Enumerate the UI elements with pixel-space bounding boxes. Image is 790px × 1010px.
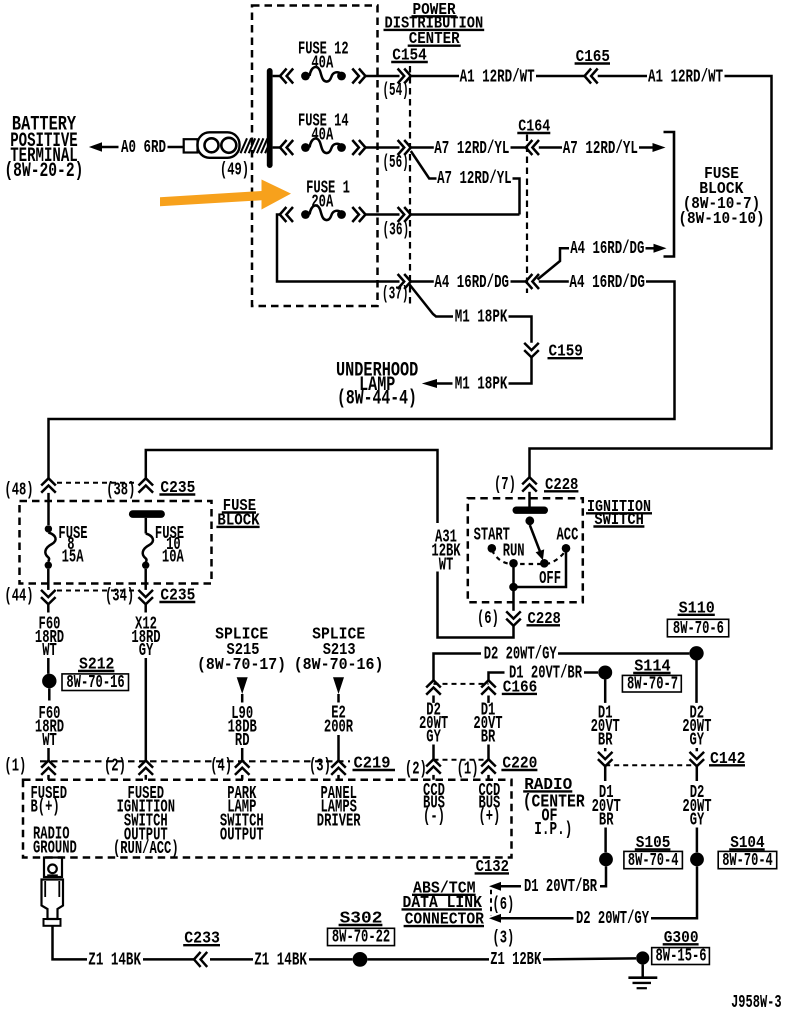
wire D1 20VT/BR to ABS xyxy=(600,866,606,886)
svg-text:(1): (1) xyxy=(457,760,479,780)
svg-text:(54): (54) xyxy=(383,81,409,101)
wire F60 18RD WT xyxy=(47,604,50,612)
switch output wires xyxy=(514,553,567,588)
svg-text:(56): (56) xyxy=(383,153,409,173)
svg-text:GY: GY xyxy=(690,731,705,751)
wire fuse12 to C154 xyxy=(366,75,400,78)
wire A31 lower run xyxy=(438,572,514,638)
wire D2 20WT/GY to ABS xyxy=(651,866,697,918)
svg-text:15A: 15A xyxy=(62,548,84,568)
svg-text:Z1 14BK: Z1 14BK xyxy=(254,950,307,970)
splice S114 xyxy=(598,666,612,680)
svg-text:WT: WT xyxy=(439,555,454,575)
wire D2 below C142 xyxy=(696,766,699,781)
svg-text:GROUND: GROUND xyxy=(33,838,77,858)
svg-text:(6): (6) xyxy=(477,609,499,629)
fuse F12 xyxy=(273,75,280,78)
svg-text:(3): (3) xyxy=(309,757,331,777)
svg-text:M1 18PK: M1 18PK xyxy=(455,308,508,328)
splice S213 arrow xyxy=(333,677,344,694)
svg-text:(8W-44-4): (8W-44-4) xyxy=(337,388,417,411)
ignition switch bus bar xyxy=(513,507,549,514)
svg-text:A0 6RD: A0 6RD xyxy=(121,138,166,158)
svg-text:BR: BR xyxy=(481,727,496,747)
svg-text:A7 12RD/YL: A7 12RD/YL xyxy=(437,169,512,189)
wire E2 200R xyxy=(337,694,340,703)
splice S110 xyxy=(689,646,703,660)
wire D2 20WT/GY xyxy=(434,654,482,681)
wire D2 from S110 down xyxy=(695,660,698,703)
fuse F10 xyxy=(145,518,148,534)
fuse block dashed box xyxy=(20,501,212,584)
fuse block bracket xyxy=(664,132,675,257)
battery feed bus bar xyxy=(267,68,273,168)
battery terminal connector (49) xyxy=(184,139,198,152)
connector C164 pin 2 xyxy=(526,274,539,289)
wire Z1 12BK xyxy=(367,958,489,961)
svg-text:J958W-3: J958W-3 xyxy=(731,993,782,1010)
svg-text:M1 18PK: M1 18PK xyxy=(455,375,508,395)
svg-text:A7 12RD/YL: A7 12RD/YL xyxy=(563,139,638,159)
svg-text:(8W-10-10): (8W-10-10) xyxy=(678,210,764,229)
splice S302 xyxy=(353,952,368,967)
svg-text:RD: RD xyxy=(235,731,250,751)
wire A31 upper run xyxy=(146,450,438,523)
svg-text:A7 12RD/YL: A7 12RD/YL xyxy=(434,139,509,159)
svg-text:(7): (7) xyxy=(494,475,516,495)
wire A4 16RD/DG xyxy=(411,280,434,283)
svg-text:RUN: RUN xyxy=(503,541,525,561)
wire M1 18PK to underhood lamp xyxy=(509,357,532,383)
switch contacts xyxy=(488,544,497,553)
C154 pin 36 xyxy=(398,207,411,222)
crimp hatching xyxy=(241,138,248,153)
arrow to battery terminal xyxy=(89,142,102,151)
splice S104 xyxy=(690,853,704,867)
radio pin stub wires xyxy=(47,775,50,780)
svg-text:40A: 40A xyxy=(311,53,333,73)
splice S215 arrow xyxy=(237,677,248,694)
svg-text:A4 16RD/DG: A4 16RD/DG xyxy=(570,239,644,259)
switch wiper xyxy=(525,516,534,525)
svg-text:A4 16RD/DG: A4 16RD/DG xyxy=(434,273,509,293)
svg-text:A1 12RD/WT: A1 12RD/WT xyxy=(460,67,535,87)
svg-text:8W-70-22: 8W-70-22 xyxy=(332,928,390,948)
svg-text:(3): (3) xyxy=(492,928,514,948)
svg-text:(8W-70-16): (8W-70-16) xyxy=(294,656,384,675)
svg-text:D2 20WT/GY: D2 20WT/GY xyxy=(576,909,649,929)
svg-text:200R: 200R xyxy=(324,717,353,737)
svg-text:(+): (+) xyxy=(478,807,500,827)
wire fuse14 to C154 xyxy=(366,146,400,149)
svg-text:20A: 20A xyxy=(311,192,333,212)
svg-text:(8W-20-2): (8W-20-2) xyxy=(4,160,83,183)
wire fuse1 output xyxy=(411,213,520,216)
wire D1 below C142 xyxy=(604,766,607,781)
svg-text:D2 20WT/GY: D2 20WT/GY xyxy=(484,645,557,665)
wire A1 12RD/WT to ignition switch xyxy=(598,75,647,78)
contact arc xyxy=(492,550,566,564)
fuse block bus bar xyxy=(129,510,165,518)
orange highlight arrow xyxy=(160,180,291,210)
svg-text:(2): (2) xyxy=(104,757,126,777)
svg-text:8W-70-4: 8W-70-4 xyxy=(628,851,679,871)
connector C235 upper xyxy=(41,478,56,492)
C154 pin 37 xyxy=(398,274,411,289)
svg-text:A1 12RD/WT: A1 12RD/WT xyxy=(648,67,723,87)
svg-text:OUTPUT: OUTPUT xyxy=(220,825,264,845)
wire fuse1 to C154 xyxy=(366,213,400,216)
svg-text:(49): (49) xyxy=(220,161,249,181)
wire D1 from S114 down xyxy=(604,680,607,703)
wire A4 to lower fuse block xyxy=(49,282,675,479)
ground G300 xyxy=(636,951,649,964)
svg-text:(2): (2) xyxy=(405,760,427,780)
svg-text:(6): (6) xyxy=(492,895,514,915)
svg-text:8W-70-16: 8W-70-16 xyxy=(66,673,124,693)
svg-text:(44): (44) xyxy=(4,587,33,607)
svg-text:WT: WT xyxy=(42,641,57,661)
connector C142 pin D1 xyxy=(598,752,613,766)
power distribution center dashed box xyxy=(252,6,378,307)
wire A7 12RD/YL xyxy=(411,146,434,149)
svg-text:GY: GY xyxy=(690,810,705,830)
fuse F8 xyxy=(47,493,50,525)
svg-text:BR: BR xyxy=(598,731,613,751)
splice S212 xyxy=(42,674,56,688)
svg-text:BR: BR xyxy=(599,810,614,830)
svg-text:(8W-70-17): (8W-70-17) xyxy=(197,656,286,675)
wire D1 20VT/BR xyxy=(489,673,505,681)
svg-text:I.P.): I.P.) xyxy=(534,820,572,840)
connector C142 pin D2 xyxy=(690,752,705,766)
connector C235 lower xyxy=(41,590,56,604)
connector C220 xyxy=(434,759,489,761)
wire L90 18DB RD xyxy=(241,694,244,703)
svg-text:DRIVER: DRIVER xyxy=(317,812,361,832)
svg-text:(-): (-) xyxy=(423,807,445,827)
svg-text:GY: GY xyxy=(139,641,154,661)
wire A1 12RD/WT xyxy=(411,75,459,78)
svg-text:8W-15-6: 8W-15-6 xyxy=(656,947,707,967)
leader wire A7 12RD/YL from fuse 1 xyxy=(411,151,437,179)
svg-text:(RUN/ACC): (RUN/ACC) xyxy=(113,839,179,859)
C154 pin 54 xyxy=(398,69,411,84)
svg-text:8W-70-7: 8W-70-7 xyxy=(627,675,678,695)
wire A7 12RD/YL to fuse block xyxy=(539,146,562,149)
splice S105 xyxy=(599,853,613,867)
connector C142 line and label xyxy=(605,764,697,766)
wire F60 lower xyxy=(48,688,51,700)
svg-text:B(+): B(+) xyxy=(31,798,60,818)
wire D2 stack above C220 xyxy=(432,696,435,703)
fuse F14 xyxy=(273,146,280,149)
svg-text:(1): (1) xyxy=(4,757,26,777)
svg-text:GY: GY xyxy=(426,727,441,747)
leader A4 16RD/DG to fuse block arrow xyxy=(538,248,570,279)
svg-text:(4): (4) xyxy=(210,757,232,777)
radio ground eyelet terminal xyxy=(44,858,62,878)
wire D1 stack above C220 xyxy=(487,696,490,703)
svg-text:Z1 12BK: Z1 12BK xyxy=(490,950,541,970)
C154 pin 56 xyxy=(398,140,411,155)
svg-text:10A: 10A xyxy=(162,548,184,568)
svg-text:(38): (38) xyxy=(106,481,135,501)
radio dashed box xyxy=(23,780,512,858)
wire X12 18RD GY xyxy=(144,604,147,612)
svg-text:40A: 40A xyxy=(311,125,333,145)
connector C154 boundary line xyxy=(409,66,411,306)
svg-text:(48): (48) xyxy=(4,481,33,501)
svg-text:8W-70-6: 8W-70-6 xyxy=(673,619,724,639)
svg-text:(36): (36) xyxy=(383,220,410,240)
svg-text:D1 20VT/BR: D1 20VT/BR xyxy=(524,877,597,897)
svg-text:ACC: ACC xyxy=(557,525,579,545)
leader M1 18PK xyxy=(410,285,454,317)
wire radio ground to Z1 xyxy=(53,926,88,960)
svg-text:A4 16RD/DG: A4 16RD/DG xyxy=(569,273,645,293)
connector C166 xyxy=(426,680,441,694)
svg-text:WT: WT xyxy=(42,731,57,751)
svg-text:(34): (34) xyxy=(105,587,134,607)
svg-text:8W-70-4: 8W-70-4 xyxy=(722,851,773,871)
ignition switch dashed box xyxy=(468,498,583,602)
connector C159 xyxy=(524,343,539,357)
svg-text:Z1 14BK: Z1 14BK xyxy=(88,950,141,970)
fuse F1 xyxy=(277,215,400,282)
connector C219 xyxy=(40,760,350,762)
